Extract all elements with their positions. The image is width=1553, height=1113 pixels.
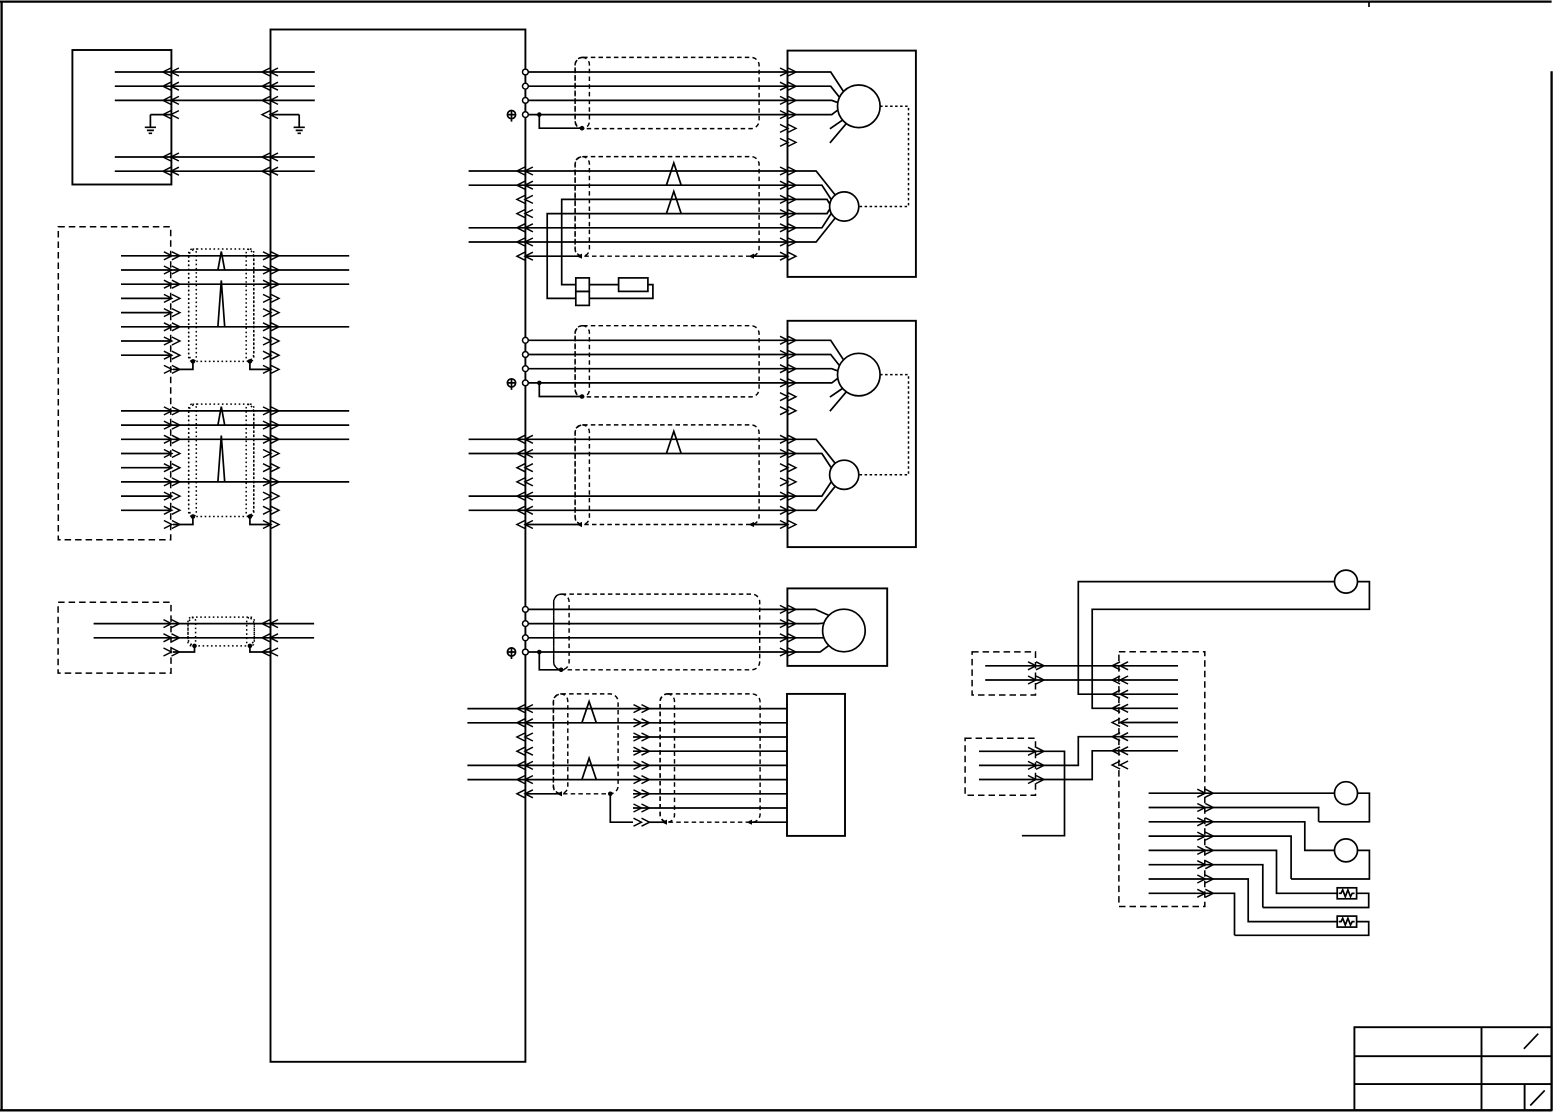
title block outer box — [1354, 1027, 1551, 1110]
power tap circle U2 — [523, 83, 529, 89]
arrow at box B edge — [164, 294, 180, 302]
arrow at box B edge — [164, 337, 180, 345]
wire box A ground row right — [272, 114, 299, 116]
arrow at controller left edge — [263, 478, 279, 486]
arrow at box B edge — [164, 478, 180, 486]
encoder E1 lead 6 — [788, 218, 836, 242]
battery wire axis 1 row 4 — [547, 214, 787, 299]
encoder cable axis 1 (dashed shield) — [575, 157, 759, 257]
shield drain wire cable B1 left — [173, 361, 193, 369]
wire cable B1 row 1 — [121, 255, 349, 257]
encoder wire stub axis 1 row 1 — [469, 170, 526, 172]
power wire axis 2 phase 2 — [528, 354, 787, 356]
power wire axis 3 phase 2 — [528, 623, 787, 625]
relay output arrow — [1197, 789, 1213, 797]
arrow at servo box edge — [780, 238, 796, 246]
arrow at servo box edge — [780, 167, 796, 175]
output wire row G — [1149, 879, 1338, 922]
arrow at controller right edge — [517, 252, 533, 260]
R5 return wire — [1235, 922, 1369, 936]
twisted pair mark pulse pair 1 — [582, 702, 596, 723]
chevron shield mark 2 at servo box edge — [780, 407, 796, 415]
output wire row E — [1149, 850, 1338, 893]
relay unit dashed box — [1119, 652, 1205, 907]
encoder E1 lead 3 — [788, 199, 830, 204]
indicator circle R2 — [1335, 782, 1358, 805]
arrow at box B edge — [164, 309, 180, 317]
relay output arrow — [1197, 804, 1213, 812]
power wire axis 1 phase 4 — [528, 114, 787, 116]
arrow at box A edge — [163, 68, 179, 76]
relay box inner stub — [1121, 736, 1178, 738]
title block column divider — [1481, 1027, 1483, 1110]
encoder E1 lead 5 — [788, 213, 832, 227]
arrow at controller left edge — [263, 435, 279, 443]
RB wire row 1 — [979, 751, 1065, 835]
arrow at controller right edge — [517, 167, 533, 175]
output wire row F — [1149, 865, 1263, 908]
power wire axis 2 phase 3 — [528, 368, 787, 370]
shield junction dot — [191, 359, 196, 364]
wire cable B1 row 8 stub — [121, 354, 171, 356]
encoder cable axis 2 (dashed shield) — [575, 425, 759, 525]
shield drain wire C right — [250, 646, 271, 652]
relay box inner stub — [1121, 693, 1178, 695]
chevron at controller right edge — [517, 478, 533, 486]
arrow at controller left edge — [263, 294, 279, 302]
switch unit dashed box RB — [965, 738, 1035, 795]
arrow at controller left edge — [262, 634, 278, 642]
wire box C row 2 — [94, 637, 315, 639]
chevron shield mark 2 at servo box edge — [780, 138, 796, 146]
motor M2 lead 3 — [788, 369, 838, 371]
shielded cable cable B1 (dotted) — [189, 249, 254, 361]
relay box inner stub — [1121, 707, 1178, 709]
I/O unit dashed box C — [58, 602, 171, 673]
pulse shield drain right — [752, 821, 787, 823]
encoder E2 lead 1 — [788, 439, 836, 463]
twisted pair mark cable B2 pair 2 — [218, 436, 225, 482]
PE drain wire axis 3 — [539, 652, 561, 670]
arrow at controller left edge — [263, 365, 279, 373]
arrow at controller left edge — [263, 252, 279, 260]
twisted pair mark cable B1 pair 1 — [218, 252, 225, 271]
encoder wire axis 1 row 5 — [525, 227, 787, 229]
wire cable B1 row 2 — [121, 269, 349, 271]
arrow at RA box edge — [1028, 662, 1044, 670]
arrow at cable joint — [634, 776, 650, 784]
arrow at relay box edge — [1112, 662, 1128, 670]
arrow at motor box edge — [780, 648, 796, 656]
arrow at controller left edge — [263, 280, 279, 288]
arrow at box B edge — [164, 365, 180, 373]
encoder wire stub axis 2 row 5 — [469, 495, 526, 497]
arrow at controller left edge — [262, 167, 278, 175]
relay output arrow — [1197, 832, 1213, 840]
power tap circle axis 3 U3 — [523, 635, 529, 641]
output wire row B — [1149, 808, 1319, 822]
resistor load R5 — [1337, 916, 1356, 927]
wire box A row 4 — [115, 156, 315, 158]
power tap circle U3 — [523, 98, 529, 104]
arrow at cable joint — [634, 705, 650, 713]
arrow at servo box edge — [780, 195, 796, 203]
shield junction dot — [608, 792, 613, 797]
encoder wire axis 1 row 2 — [525, 184, 787, 186]
encoder shield drain solid right axis 2 — [754, 524, 788, 526]
arrow at controller left edge — [263, 266, 279, 274]
arrow at controller right edge — [517, 790, 533, 798]
motor M3 lead 4 — [787, 646, 828, 652]
motor M2 circle — [838, 353, 881, 396]
wire cable B2 row 4 stub — [121, 453, 171, 455]
arrow at cable joint — [634, 733, 650, 741]
PE junction dot — [537, 112, 542, 117]
title block row line 1 — [1354, 1055, 1551, 1057]
encoder wire stub axis 2 row 1 — [469, 438, 526, 440]
motor M1 brush slash 2 — [830, 124, 846, 143]
arrow at controller left edge — [263, 506, 279, 514]
twisted pair mark axis 1 enc pair 1 — [666, 163, 681, 185]
power wire axis 3 phase 3 — [528, 637, 787, 639]
pulse cable left (dashed shield) — [553, 694, 618, 794]
chevron shield mark 1 at servo box edge — [780, 124, 796, 132]
page border fold tick — [1368, 2, 1370, 7]
twisted pair mark pulse pair 2 — [582, 758, 596, 779]
arrow at controller left edge — [263, 521, 279, 529]
power wire axis 2 phase 1 — [528, 339, 787, 341]
wire cable B1 row 6 — [121, 326, 349, 328]
arrow at controller left edge — [263, 450, 279, 458]
motor M3 circle — [823, 609, 866, 652]
arrow at servo box edge — [780, 379, 796, 387]
R1 left lead wire — [1078, 582, 1334, 695]
R3 return wire — [1291, 850, 1369, 879]
output wire row H — [1149, 893, 1235, 935]
wire box A row 5 — [115, 170, 315, 172]
arrow at controller right edge — [517, 238, 533, 246]
pulse wire stub row 5 — [467, 764, 525, 766]
twisted pair mark axis 1 enc pair 2 — [666, 191, 681, 213]
relay output arrow — [1197, 875, 1213, 883]
power tap circle U4 — [523, 112, 529, 118]
shield arrow dot right — [749, 254, 755, 259]
arrow at controller right edge — [517, 181, 533, 189]
arrow at servo box edge — [780, 82, 796, 90]
shield junction dot — [580, 394, 585, 399]
pulse wire stub row 2 — [467, 722, 525, 724]
relay box inner stub — [1121, 679, 1178, 681]
arrow at box B edge — [164, 492, 180, 500]
wire box A row 2 — [115, 85, 315, 87]
pulse shield wire mid — [649, 821, 663, 823]
arrow at RB box edge — [1028, 776, 1044, 784]
spindle motor unit box — [787, 588, 887, 666]
arrow at relay box edge — [1112, 733, 1128, 741]
arrow at box B edge — [164, 435, 180, 443]
relay output arrow — [1197, 846, 1213, 854]
relay output arrow — [1197, 889, 1213, 897]
title block row line 2 — [1354, 1083, 1551, 1085]
arrow at controller left edge — [263, 421, 279, 429]
arrow at cable joint — [634, 719, 650, 727]
shield junction dot — [192, 644, 197, 649]
pulse wire row 2 — [525, 722, 787, 724]
encoder wire stub axis 2 row 6 — [469, 509, 526, 511]
I/O unit dashed box B — [58, 227, 170, 540]
arrow at box B edge — [164, 266, 180, 274]
shielded cable cable B2 (dotted) — [189, 404, 254, 516]
chevron at relay box edge — [1112, 761, 1128, 769]
arrow at controller right edge — [517, 435, 533, 443]
encoder E2 lead 6 — [788, 486, 836, 510]
arrow at box A edge — [163, 167, 179, 175]
chevron at controller right edge — [517, 464, 533, 472]
page border left — [0, 2, 2, 1111]
pulse wire row 4 right part — [633, 750, 787, 752]
chevron at controller right edge — [517, 210, 533, 218]
arrow at controller left edge — [262, 82, 278, 90]
pulse wire row 1 — [525, 708, 787, 710]
motor M1 lead 1 — [788, 72, 844, 92]
wire cable B2 row 6 — [121, 481, 349, 483]
terminal unit box — [787, 694, 845, 836]
arrow at box B edge — [164, 323, 180, 331]
chevron at controller right edge — [517, 195, 533, 203]
arrow at box B edge — [164, 280, 180, 288]
arrow at controller right edge — [517, 761, 533, 769]
arrow at cable joint — [634, 761, 650, 769]
shield junction dot — [559, 668, 564, 673]
shield arrow dot — [557, 791, 563, 796]
encoder link dotted wire axis 1 — [859, 106, 909, 206]
encoder link dotted wire axis 2 — [859, 375, 909, 475]
encoder E1 circle — [830, 192, 859, 221]
arrow at controller right edge — [517, 224, 533, 232]
motor M1 brush slash 1 — [830, 120, 843, 129]
encoder E2 lead 5 — [788, 482, 832, 496]
arrow at controller right edge — [517, 521, 533, 529]
twisted pair mark cable B2 pair 1 — [218, 407, 225, 426]
arrow at box B edge — [164, 407, 180, 415]
output wire row A — [1149, 792, 1335, 794]
pulse shield link wire — [610, 794, 633, 822]
power cable axis 3 (dashed shield) — [554, 594, 760, 670]
arrow at box B edge — [164, 421, 180, 429]
arrow at controller right edge — [517, 776, 533, 784]
ground symbol right — [294, 115, 305, 134]
wire cable B1 row 4 stub — [121, 297, 171, 299]
shield drain wire cable B2 right — [250, 517, 271, 525]
arrow at box C edge — [164, 648, 180, 656]
arrow at servo box edge — [780, 96, 796, 104]
chevron at servo box edge — [780, 464, 796, 472]
arrow at controller left edge — [263, 351, 279, 359]
output wire row C — [1149, 822, 1335, 851]
arrow at box A edge — [163, 153, 179, 161]
relay box inner stub — [1121, 722, 1178, 724]
wire box A ground row left — [150, 114, 171, 116]
motor M2 brush slash 2 — [830, 392, 846, 411]
arrow at relay box edge — [1112, 690, 1128, 698]
arrow at controller left edge — [262, 153, 278, 161]
encoder shield drain solid left axis 2 — [525, 524, 578, 526]
arrow at RA box edge — [1028, 676, 1044, 684]
RA wire row 1 — [985, 665, 1120, 667]
arrow at servo box edge — [780, 492, 796, 500]
motor M1 circle — [838, 85, 881, 128]
wire box A row 1 — [115, 71, 315, 73]
arrow at box A edge — [163, 111, 179, 119]
pulse wire stub row 1 — [467, 708, 525, 710]
protective earth symbol axis 3 — [507, 648, 515, 656]
resistor load R4 — [1337, 888, 1356, 899]
shield arrow dot left — [577, 522, 583, 527]
relay box inner stub — [1121, 665, 1178, 667]
PE junction dot — [537, 381, 542, 386]
arrow at controller left edge — [262, 96, 278, 104]
switch unit dashed box RA — [972, 652, 1035, 695]
encoder wire axis 1 row 1 — [525, 170, 787, 172]
motor M3 lead 1 — [787, 609, 828, 615]
arrow at relay box edge — [1112, 676, 1128, 684]
arrow at controller left edge — [262, 111, 278, 119]
wire cable B1 row 5 stub — [121, 312, 171, 314]
arrow at controller right edge — [517, 450, 533, 458]
arrow at servo box edge — [780, 224, 796, 232]
arrow at controller left edge — [263, 492, 279, 500]
motor M2 lead 2 — [788, 355, 840, 366]
power cable axis 1 (dashed shield) — [575, 57, 759, 128]
arrow at box C edge — [164, 620, 180, 628]
R1 right lead wire — [1092, 582, 1369, 709]
power tap circle U4 — [523, 380, 529, 386]
wire cable B2 row 5 stub — [121, 467, 171, 469]
arrow at cable joint — [634, 790, 650, 798]
arrow at cable joint — [634, 747, 650, 755]
encoder shield drain solid left axis 1 — [525, 255, 578, 257]
wire box C row 1 — [94, 623, 315, 625]
motor M1 lead 3 — [788, 100, 838, 102]
arrow at box A edge — [163, 82, 179, 90]
relay box inner stub — [1121, 750, 1178, 752]
encoder E1 lead 2 — [788, 185, 832, 199]
power tap circle U1 — [523, 337, 529, 343]
arrow at servo box edge — [780, 252, 796, 260]
encoder shield drain solid right axis 1 — [754, 255, 788, 257]
power tap circle U1 — [523, 69, 529, 75]
R4 return wire — [1263, 893, 1369, 907]
encoder E2 circle — [830, 460, 859, 489]
pulse cable right (dashed shield) — [660, 694, 760, 822]
motor M3 lead 3 — [787, 637, 824, 639]
shield drain wire cable B1 right — [250, 361, 271, 369]
chevron at relay box edge — [1112, 719, 1128, 727]
page border top — [0, 0, 1552, 2]
shielded cable C (dotted) — [188, 617, 254, 646]
pulse shield drain solid — [525, 793, 558, 795]
arrow at motor box edge — [780, 605, 796, 613]
shield drain wire C left — [173, 646, 195, 652]
chevron shield mark 1 at servo box edge — [780, 393, 796, 401]
pulse wire row 6 — [525, 779, 787, 781]
pulse wire row 3 right part — [633, 736, 787, 738]
relay output arrow — [1197, 861, 1213, 869]
motor M3 lead 2 — [787, 622, 824, 624]
shield junction dot — [191, 514, 196, 519]
interface unit box A — [72, 50, 171, 185]
pulse wire row 7 right part — [633, 793, 787, 795]
ground symbol left — [145, 115, 156, 134]
twisted pair mark cable B1 pair 2 — [218, 280, 225, 326]
power wire axis 1 phase 2 — [528, 85, 787, 87]
arrow at box C edge — [164, 634, 180, 642]
battery wire upper — [589, 284, 618, 286]
power tap circle U3 — [523, 366, 529, 372]
arrow at servo box edge — [780, 68, 796, 76]
encoder wire stub axis 1 row 5 — [469, 227, 526, 229]
wire cable B1 row 3 — [121, 283, 349, 285]
arrow at motor box edge — [780, 620, 796, 628]
motor M1 lead 2 — [788, 86, 840, 97]
indicator circle R1 — [1335, 570, 1358, 593]
arrow at box B edge — [164, 521, 180, 529]
arrow at controller left edge — [262, 620, 278, 628]
chevron at controller right edge — [517, 733, 533, 741]
shield junction dot — [248, 644, 253, 649]
encoder wire stub axis 2 row 2 — [469, 453, 526, 455]
arrow at cable joint — [634, 804, 650, 812]
RA wire row 2 — [985, 679, 1120, 681]
arrow at servo box edge — [780, 210, 796, 218]
servo motor unit box axis 1 — [788, 51, 916, 277]
arrow at controller right edge — [517, 705, 533, 713]
PE junction dot — [537, 650, 542, 655]
arrow at servo box edge — [780, 336, 796, 344]
arrow at controller left edge — [262, 648, 278, 656]
battery wire axis 1 row 3 — [562, 199, 788, 284]
relay output arrow — [1197, 818, 1213, 826]
power tap circle axis 3 U2 — [523, 621, 529, 627]
shield arrow dot — [747, 820, 753, 825]
arrow at controller left edge — [263, 407, 279, 415]
power tap circle axis 3 U1 — [523, 607, 529, 613]
wire box A row 3 — [115, 99, 315, 101]
arrow at controller left edge — [263, 464, 279, 472]
PE drain wire axis 2 — [539, 383, 582, 397]
motor M2 lead 1 — [788, 340, 844, 360]
arrow at controller right edge — [517, 506, 533, 514]
arrow at controller left edge — [263, 337, 279, 345]
R2 return wire — [1319, 793, 1370, 822]
shield drain wire cable B2 left — [173, 517, 193, 525]
power cable axis 2 (dashed shield) — [575, 326, 759, 397]
battery return wire — [589, 285, 653, 299]
title block slash mark 1 — [1524, 1034, 1538, 1049]
shield junction dot — [248, 359, 253, 364]
wire cable B2 row 7 stub — [121, 495, 171, 497]
arrow at servo box edge — [780, 181, 796, 189]
arrow at relay box edge — [1112, 747, 1128, 755]
arrow at servo box edge — [780, 521, 796, 529]
wire cable B2 row 8 stub — [121, 509, 171, 511]
page border right — [1550, 71, 1552, 1110]
arrow at servo box edge — [780, 435, 796, 443]
protective earth symbol axis 1 — [507, 111, 515, 119]
arrow at box B edge — [164, 252, 180, 260]
arrow at box B edge — [164, 506, 180, 514]
shield junction dot — [580, 126, 585, 131]
